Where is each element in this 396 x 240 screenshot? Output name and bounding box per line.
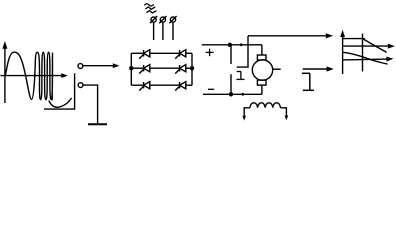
wire row 2 right xyxy=(186,67,192,69)
wire arrow from upper contact to rectifier xyxy=(83,63,119,68)
thyristor V3 xyxy=(139,65,150,74)
node t-axis of AC source graph with arrow xyxy=(0,73,67,78)
switch S contact circle lower xyxy=(78,83,83,88)
wire upper output arrow to graph xyxy=(248,33,333,38)
wire DC minus bus xyxy=(203,93,262,95)
node V-axis of AC source graph xyxy=(2,41,7,103)
wire from lower contact to ground xyxy=(83,85,97,124)
node gate terminal 3 xyxy=(169,16,176,40)
motor M armature xyxy=(252,60,272,80)
wire row 3 right xyxy=(186,84,192,86)
thyristor V4 xyxy=(175,65,186,74)
motor M bottom brush xyxy=(257,80,266,85)
wire switch blade xyxy=(237,36,248,67)
wire plus bus to brush drop xyxy=(247,44,262,46)
node label 1 lower xyxy=(302,73,314,90)
wire row 1 right xyxy=(186,52,192,54)
node graph vertical line T-rated xyxy=(362,34,364,72)
ground xyxy=(88,123,107,125)
wire motor shaft stub xyxy=(273,68,281,70)
inductor L field winding xyxy=(250,103,280,108)
node junction dot minus bus xyxy=(229,92,233,96)
wire curved tail from coil into corner bracket xyxy=(49,98,72,108)
wire switch lower lead xyxy=(230,74,232,94)
wire row 2 middle xyxy=(150,67,180,69)
node graph n-axis xyxy=(340,30,345,74)
node junction dot plus bus xyxy=(228,43,232,47)
wire characteristic 4 curve xyxy=(343,52,388,64)
wire characteristic 1 horizontal xyxy=(343,38,365,40)
wire sine wave merging into transformer coil T1 xyxy=(5,52,52,100)
wire rectifier right bus xyxy=(191,53,193,85)
wire switch upper lead xyxy=(230,45,232,64)
thyristor V1 xyxy=(139,50,150,59)
wire field winding left lead with arrow xyxy=(242,108,250,121)
node junction dot left bus xyxy=(129,66,133,70)
motor M top brush xyxy=(257,55,266,60)
node three-phase AC symbol xyxy=(144,4,156,13)
node corner bracket under switch xyxy=(44,73,75,109)
wire top brush lead xyxy=(261,45,263,55)
wire characteristic 3 arrow xyxy=(343,57,394,62)
node plus label xyxy=(206,49,214,57)
node minus label xyxy=(208,88,214,90)
wire field winding right lead with arrow xyxy=(280,108,288,121)
thyristor V2 xyxy=(175,50,186,59)
node gate terminal 2 xyxy=(159,16,166,40)
thyristor V5 xyxy=(139,82,150,91)
wire row 3 middle xyxy=(150,84,180,86)
node gate terminal 1 xyxy=(150,16,157,40)
wire DC plus bus xyxy=(202,44,248,46)
node label 1 contactor xyxy=(236,72,244,80)
wire rectifier left bus xyxy=(130,53,132,85)
wire characteristic 2 horizontal arrow xyxy=(343,44,395,49)
wire lower output arrow to graph xyxy=(303,66,334,71)
wire row 1 middle xyxy=(150,52,180,54)
wire bridge row 1 xyxy=(131,52,143,54)
node junction dot right bus xyxy=(190,66,194,70)
node small dot plus bus xyxy=(240,43,243,46)
wire bridge row 2 xyxy=(131,67,143,69)
thyristor V6 xyxy=(175,82,186,91)
wire bridge row 3 xyxy=(131,84,143,86)
node small dot minus bus xyxy=(241,93,244,96)
wire characteristic 1 drooping segment xyxy=(363,39,387,53)
wire bottom brush lead xyxy=(261,85,263,94)
switch S contact circle upper xyxy=(78,64,83,69)
